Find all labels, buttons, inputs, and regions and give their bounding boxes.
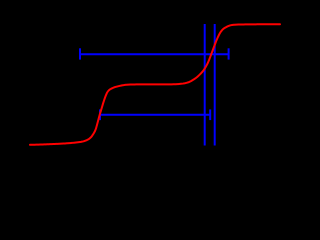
span line A bbox=[80, 53, 229, 55]
span line B right tick bbox=[209, 109, 211, 120]
titration curve (red) bbox=[30, 24, 280, 145]
vertical line V1 bbox=[204, 24, 206, 146]
span line B left tick bbox=[99, 109, 101, 120]
span line A left tick bbox=[79, 48, 81, 59]
span line A right tick bbox=[228, 48, 230, 59]
span line B bbox=[100, 114, 210, 116]
vertical line V2 bbox=[214, 24, 216, 146]
